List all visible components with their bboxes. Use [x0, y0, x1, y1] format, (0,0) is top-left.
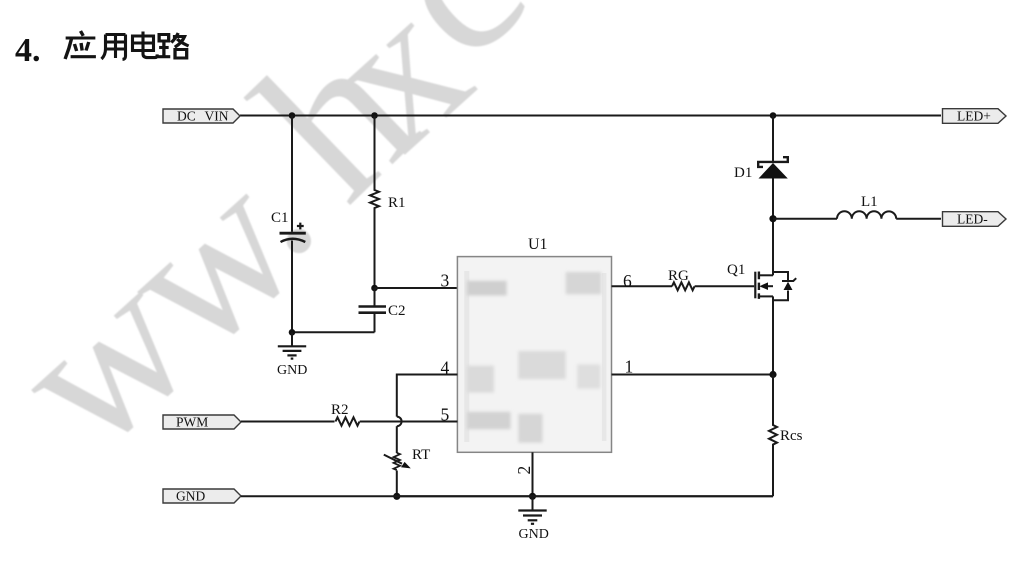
wire pin2: [532, 452, 534, 496]
wire R2 to pin5: [360, 421, 458, 423]
svg-text:RG: RG: [668, 268, 689, 284]
node PWM flag: [163, 415, 241, 429]
svg-text:Rcs: Rcs: [780, 428, 803, 444]
svg-text:C2: C2: [388, 303, 406, 319]
wire RG to gate: [695, 285, 755, 287]
junction pin1/Rcs: [769, 371, 776, 378]
svg-text:VIN: VIN: [205, 109, 229, 124]
char dian: [133, 32, 158, 58]
node LED+ flag: [943, 109, 1007, 124]
node GND flag: [163, 489, 241, 503]
junction RT/GND rail: [393, 493, 400, 500]
capacitor C1: [280, 223, 306, 242]
thermistor RT: [384, 453, 411, 497]
svg-text:C1: C1: [271, 210, 289, 226]
junction R1/C2/pin3: [371, 285, 378, 292]
junction VIN/D1: [770, 112, 777, 119]
char lu: [158, 33, 189, 58]
wire L1 to LED-: [896, 218, 941, 220]
transistor Q1: [755, 219, 796, 375]
junction pin2/GND rail: [529, 493, 536, 500]
svg-text:D1: D1: [734, 165, 752, 181]
svg-text:GND: GND: [519, 527, 549, 542]
node LED- flag: [943, 212, 1007, 227]
resistor Rcs: [769, 375, 777, 497]
svg-text:4.: 4.: [15, 32, 41, 69]
svg-text:DC: DC: [177, 109, 196, 124]
wire VIN top rail: [240, 115, 941, 117]
svg-text:GND: GND: [277, 363, 307, 378]
resistor R2: [336, 417, 360, 425]
svg-text:LED-: LED-: [957, 212, 988, 227]
svg-text:GND: GND: [176, 489, 205, 504]
svg-text:PWM: PWM: [176, 415, 208, 430]
junction VIN/C1: [289, 112, 296, 119]
wire pin4: [397, 375, 458, 417]
svg-text:5: 5: [441, 405, 450, 425]
svg-text:4: 4: [441, 358, 450, 378]
wire C1 upper: [291, 116, 293, 232]
wire pin3: [375, 287, 458, 289]
wire C1 lower: [291, 241, 293, 333]
svg-text:2: 2: [514, 466, 534, 475]
svg-text:R2: R2: [331, 402, 349, 418]
wire hop over pin5 wire: [397, 417, 402, 427]
capacitor C2: [359, 288, 387, 332]
wire C1-C2 bottom link: [292, 331, 375, 333]
op-amp U1 box: [457, 257, 611, 453]
svg-text:RT: RT: [412, 447, 430, 463]
svg-text:3: 3: [441, 271, 450, 291]
svg-text:6: 6: [623, 271, 632, 291]
wire GND bottom rail: [241, 495, 773, 497]
wire pin5 / PWM net: [241, 421, 335, 423]
svg-text:L1: L1: [861, 194, 878, 210]
resistor RG: [672, 282, 695, 290]
char yong: [102, 35, 126, 60]
node DC_VIN flag: [163, 109, 240, 123]
svg-text:R1: R1: [388, 195, 406, 211]
resistor R1: [370, 116, 379, 289]
diode D1: [758, 116, 788, 219]
svg-text:LED+: LED+: [957, 109, 991, 124]
wire pin1: [612, 374, 774, 376]
wire pin6: [612, 285, 673, 287]
junction VIN/R1: [371, 112, 378, 119]
svg-text:1: 1: [625, 357, 634, 377]
svg-text:Q1: Q1: [727, 262, 745, 278]
wire Rcs to GND rail: [397, 495, 773, 497]
ground symbol left: [278, 332, 306, 358]
ground symbol bottom: [518, 496, 546, 524]
junction D1/L1: [769, 215, 776, 222]
junction C1/GND: [289, 329, 296, 336]
wire switch node to L1: [773, 218, 837, 220]
svg-text:U1: U1: [528, 236, 548, 253]
inductor L1: [837, 211, 896, 218]
char ying: [65, 31, 96, 59]
